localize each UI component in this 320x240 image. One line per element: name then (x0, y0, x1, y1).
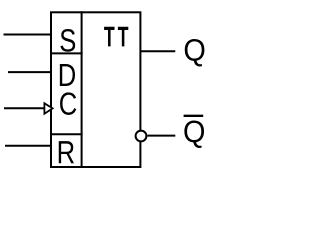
pin label R (59, 141, 74, 163)
clock arrowhead (44, 103, 52, 114)
wire C input (4, 107, 44, 109)
pin label S (60, 29, 75, 52)
output label Q-bar (184, 120, 204, 148)
wire Q-bar output (147, 135, 175, 137)
inversion bubble (136, 131, 147, 142)
output label Q (185, 39, 205, 67)
flip-flop body U1 (51, 12, 140, 167)
device type label TT, first T (104, 27, 114, 47)
wire R input (5, 145, 51, 147)
separator S/D (50, 52, 83, 54)
label column divider (81, 11, 83, 168)
wire S input (4, 34, 52, 36)
wire Q output (141, 50, 176, 52)
pin label C (60, 92, 76, 115)
wire D input (8, 71, 51, 73)
overline of Q-bar (184, 115, 204, 117)
device type label TT, second T (118, 27, 128, 47)
pin label D (60, 64, 75, 86)
separator C/R (50, 133, 83, 135)
